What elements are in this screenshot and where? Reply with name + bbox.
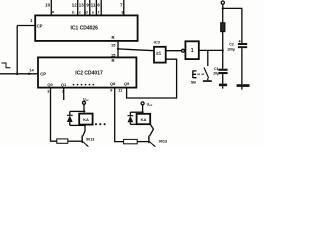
svg-text:14: 14 <box>29 68 34 73</box>
svg-text:CP: CP <box>37 23 43 28</box>
wire R2 to base <box>68 140 82 142</box>
svg-text:c: c <box>79 10 81 14</box>
wire arrowhead into IC2 CP <box>29 73 34 76</box>
ellipsis dots Q2-Q7 <box>73 84 95 86</box>
ground C1 <box>219 84 227 87</box>
node R junction <box>117 48 119 50</box>
pin c line <box>84 0 86 15</box>
pin e line <box>95 0 97 15</box>
svg-text:C2: C2 <box>229 42 234 46</box>
inverter U4 box <box>185 41 198 59</box>
wire pin15 vertical <box>117 41 119 58</box>
svg-text:e: e <box>92 10 94 14</box>
node RC junction <box>222 49 224 51</box>
svg-text:11: 11 <box>91 2 96 7</box>
svg-text:9013: 9013 <box>159 139 167 143</box>
svg-text:R: R <box>111 58 114 63</box>
wire terminal lead <box>222 4 224 8</box>
svg-text:CP: CP <box>40 71 46 76</box>
pin d line <box>89 0 91 15</box>
terminal Ucc block2 <box>141 102 144 105</box>
svg-text:C1: C1 <box>214 67 219 71</box>
pin a line <box>50 0 52 15</box>
diode VD1 <box>69 111 71 115</box>
wire top rail block2 <box>130 111 142 113</box>
terminal Ucc top <box>221 1 224 4</box>
svg-text:KA: KA <box>141 117 147 122</box>
terminal Ucc block1 <box>83 101 86 104</box>
wire power to C2 <box>223 8 242 43</box>
wire bottom rail block2 <box>130 123 150 125</box>
resistor R2 <box>57 139 68 143</box>
svg-text:IC2 CD4017: IC2 CD4017 <box>75 71 103 77</box>
wire top rail block1 <box>70 110 85 112</box>
svg-text:Ucc: Ucc <box>83 97 89 102</box>
wire relay to collector <box>150 124 154 136</box>
pin f line <box>100 0 102 15</box>
IC1 CD4026 box <box>35 15 137 41</box>
resistor R1 <box>222 8 224 22</box>
wire R line to IC3 <box>118 49 154 51</box>
svg-text:IC3: IC3 <box>154 40 161 45</box>
wire vertical to IC1 CP <box>16 26 18 74</box>
wire Q0 to resistor R2 <box>51 88 57 142</box>
svg-text:12: 12 <box>72 2 77 7</box>
capacitor C2 <box>238 43 247 45</box>
svg-text:100µ: 100µ <box>227 48 235 52</box>
relay coil KA1 <box>79 114 92 125</box>
pushbutton SB <box>207 50 209 66</box>
wire CP input to IC2 <box>0 73 38 75</box>
svg-text:Q1: Q1 <box>61 82 67 87</box>
wire IC1 CP <box>17 25 35 27</box>
wire Ucc stem block2 <box>142 105 144 112</box>
wire R3 to base <box>137 141 149 143</box>
wire Q1 stub <box>63 88 65 100</box>
pin b line <box>77 0 79 15</box>
svg-text:9013: 9013 <box>86 138 94 142</box>
svg-text:Q8: Q8 <box>110 81 116 86</box>
svg-text:R: R <box>111 35 114 40</box>
IC2 CD4017 box <box>38 57 136 87</box>
capacitor C1 <box>222 50 224 68</box>
wire IC3 to inverter bubble <box>166 50 182 52</box>
node junction CP <box>16 73 19 76</box>
svg-text:KA: KA <box>83 117 89 122</box>
diode VD2 <box>129 112 131 116</box>
wire inverter output to RC node <box>199 49 223 51</box>
svg-text:Ucc: Ucc <box>147 102 153 107</box>
polarity plus C2 <box>239 40 241 42</box>
ground C2 <box>237 84 250 87</box>
svg-text:13: 13 <box>79 2 84 7</box>
relay coil KA2 <box>137 114 151 124</box>
wire Q8 to resistor R3 <box>115 88 124 142</box>
svg-text:1: 1 <box>191 48 194 54</box>
IC3 OR gate <box>154 47 166 63</box>
svg-text:IC1 CD4026: IC1 CD4026 <box>70 26 98 32</box>
node block1 top <box>83 110 85 112</box>
transistor Q2 9013 <box>148 136 150 144</box>
transistor Q1 9013 <box>81 136 83 144</box>
node block2 top <box>142 111 144 113</box>
ellipsis between blocks <box>95 123 106 125</box>
resistor R3 <box>124 139 138 143</box>
svg-text:20µ: 20µ <box>213 72 219 76</box>
wire bottom rail block1 <box>70 124 85 126</box>
actuator E <box>193 71 197 79</box>
svg-text:Q0: Q0 <box>47 82 53 87</box>
svg-text:15: 15 <box>111 42 116 47</box>
wire Q9 feedback to IC3 <box>127 59 177 98</box>
pulse waveform symbol <box>2 63 11 68</box>
svg-text:SB: SB <box>191 80 196 84</box>
svg-text:Q9: Q9 <box>124 81 130 86</box>
wire relay to collector <box>83 125 85 136</box>
svg-text:≥1: ≥1 <box>156 51 162 56</box>
inverter bubble <box>182 49 185 52</box>
node power junction <box>222 7 224 9</box>
pin g line <box>123 0 125 15</box>
wire Ucc stem block1 <box>83 104 85 111</box>
dashed link <box>197 73 204 75</box>
svg-text:10: 10 <box>45 3 50 8</box>
